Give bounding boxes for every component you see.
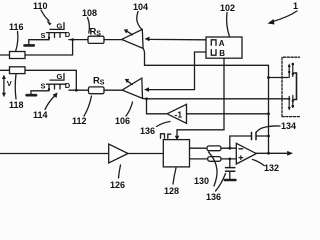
wire cap 136 to ground bbox=[229, 172, 231, 179]
arrowhead into 128 top bbox=[175, 136, 179, 140]
ground (bottom) bbox=[225, 179, 235, 182]
transistor Q110 gate bracket bbox=[50, 23, 64, 30]
leader 130 bbox=[209, 152, 218, 186]
transistor Q110 channel bbox=[47, 32, 66, 34]
label 110 bbox=[33, 1, 48, 11]
label 108 bbox=[82, 8, 97, 18]
svg-text:V: V bbox=[7, 79, 12, 88]
transistor Q114 gate label G bbox=[57, 72, 63, 81]
node plus input bbox=[228, 158, 231, 161]
svg-text:106: 106 bbox=[115, 116, 130, 126]
svg-text:102: 102 bbox=[220, 3, 235, 13]
wire U106 bottom vertex to transducer (crosses bus) bbox=[143, 97, 290, 99]
resistor block 118 bbox=[10, 67, 26, 74]
resistor 130b bbox=[208, 157, 221, 162]
transducer top element bbox=[288, 63, 294, 78]
inverter amp -1 (136) bbox=[167, 104, 187, 123]
leader 132 bbox=[253, 160, 265, 166]
wire 118 to drain node of Q114 bbox=[25, 70, 76, 90]
output arrowhead bbox=[287, 151, 293, 156]
transducer bottom element bbox=[288, 96, 294, 111]
transducer core bracket bbox=[294, 73, 297, 100]
pulse generator block 102 bbox=[206, 37, 242, 58]
svg-text:136: 136 bbox=[206, 192, 221, 200]
leader 126 bbox=[119, 165, 121, 178]
wire node to inverter 136 bbox=[147, 99, 168, 114]
svg-text:132: 132 bbox=[264, 163, 279, 173]
label 132 bbox=[264, 163, 279, 173]
label 126 bbox=[110, 180, 125, 190]
label 130 bbox=[194, 176, 209, 186]
svg-text:116: 116 bbox=[9, 22, 24, 32]
resistor block 116 bbox=[10, 52, 26, 59]
leader arrow 110 bbox=[41, 10, 52, 26]
buffer amp 126 (right pointing) bbox=[109, 144, 128, 163]
svg-text:S: S bbox=[100, 80, 105, 87]
resistor 130a bbox=[207, 146, 221, 151]
svg-text:130: 130 bbox=[194, 176, 209, 186]
label 100 (cut off at edge) bbox=[293, 1, 298, 11]
transistor Q114 source tick node bbox=[48, 88, 50, 90]
svg-text:108: 108 bbox=[82, 8, 97, 18]
-1 text bbox=[175, 110, 183, 120]
label 118 bbox=[9, 100, 24, 110]
wire op-amp output bbox=[256, 152, 288, 154]
resistor Rs 108 bbox=[88, 36, 104, 43]
demodulator block 128 bbox=[163, 140, 189, 167]
wire B output of 102 to amp 106 bbox=[149, 52, 206, 90]
transistor Q110 D label bbox=[65, 30, 71, 39]
leader 134 bbox=[257, 126, 281, 132]
leader 112 bbox=[84, 96, 92, 116]
transistor Q110 source tick node bbox=[48, 37, 50, 39]
leader 108 bbox=[88, 18, 90, 34]
wire 126 to 128 bbox=[128, 153, 163, 155]
pulse symbol B bbox=[211, 50, 216, 56]
wire long input to buffer 126 bbox=[0, 153, 109, 155]
transistor Q110 gate label G bbox=[57, 21, 63, 30]
wire source Q114 to ground bbox=[31, 89, 49, 94]
svg-text:S: S bbox=[41, 31, 46, 40]
svg-text:118: 118 bbox=[9, 100, 24, 110]
wire Rs108 to amp 104 bbox=[104, 39, 122, 41]
gain arrow of U106 bbox=[125, 79, 132, 85]
label 116 bbox=[9, 22, 24, 32]
wire 116 to drain node of Q110 bbox=[25, 40, 73, 55]
leader 106 bbox=[126, 102, 133, 116]
wire Rs112 to amp 106 bbox=[104, 89, 122, 91]
input arrowhead into U106 bbox=[144, 87, 149, 92]
leader 118 bbox=[14, 74, 17, 99]
label 136 (cap) bbox=[206, 192, 221, 202]
svg-text:B: B bbox=[219, 49, 225, 58]
node feed inverter bbox=[145, 97, 148, 100]
capacitor 136 bbox=[226, 168, 235, 172]
wire 130b to op-amp bbox=[221, 158, 236, 160]
ground (middle) bbox=[27, 94, 36, 97]
label V bbox=[7, 79, 12, 88]
pulse symbol A bbox=[211, 40, 216, 46]
svg-text:1: 1 bbox=[293, 1, 298, 11]
node bus inverter bbox=[267, 112, 270, 115]
wire bus to transducer top element bbox=[269, 77, 289, 79]
pulse glyphs above 128 bbox=[161, 134, 171, 139]
wire left stub of 118 bbox=[0, 69, 10, 71]
wire cap 134 to bus bbox=[257, 135, 269, 137]
leader 136 inverter bbox=[157, 122, 171, 127]
node drain Q110 bbox=[71, 38, 74, 41]
label 114 bbox=[33, 110, 48, 120]
svg-text:A: A bbox=[219, 39, 225, 48]
transistor Q114 D label bbox=[65, 81, 71, 90]
op-amp 132 bbox=[236, 143, 256, 164]
node minus input bbox=[228, 147, 231, 150]
wire bottom vertex U104 to right bus bbox=[143, 48, 268, 153]
svg-text:S: S bbox=[41, 82, 46, 91]
label 104 bbox=[133, 2, 148, 12]
svg-text:D: D bbox=[65, 81, 71, 90]
wire minus input to feedback cap 134 bbox=[230, 136, 251, 148]
transistor Q114 gate bracket bbox=[50, 74, 64, 81]
transistor Q114 channel bbox=[47, 83, 66, 85]
wire 128 to resistor 130b bbox=[190, 158, 208, 160]
voltage arrow V bbox=[2, 75, 6, 98]
leader arrow 100 bbox=[268, 11, 298, 25]
leader 104 bbox=[137, 12, 142, 29]
leader arrow 114 bbox=[45, 93, 58, 110]
wire drain Q114 to Rs112 bbox=[69, 89, 89, 91]
plus sign bbox=[239, 156, 243, 160]
wire 130a to op-amp bbox=[221, 147, 236, 149]
node output bus bbox=[267, 152, 270, 155]
wire left stub of 116 bbox=[0, 54, 10, 56]
svg-text:112: 112 bbox=[72, 116, 87, 126]
op-amp U104 (left pointing) bbox=[122, 29, 144, 48]
transducer dashed box bbox=[282, 57, 300, 116]
wire source Q110 to ground bbox=[29, 38, 49, 45]
resistor Rs 112 bbox=[89, 87, 105, 94]
svg-text:134: 134 bbox=[281, 121, 296, 131]
node bus to transducer top bbox=[267, 76, 270, 79]
wire drain Q110 to Rs108 bbox=[69, 39, 88, 41]
svg-text:114: 114 bbox=[33, 110, 48, 120]
svg-text:128: 128 bbox=[164, 186, 179, 196]
label 102 bbox=[220, 3, 235, 13]
leader 136 cap bbox=[216, 174, 226, 192]
node drain Q114 bbox=[75, 89, 78, 92]
label 136 (inverter) bbox=[140, 126, 155, 136]
ground (top) bbox=[25, 44, 34, 47]
svg-text:126: 126 bbox=[110, 180, 125, 190]
leader 102 bbox=[227, 13, 230, 37]
wire plus input to cap 136 bbox=[229, 159, 231, 167]
leader 116 bbox=[16, 32, 18, 52]
wire inverter input from right bus bbox=[187, 113, 269, 115]
resistor Rs 112 label bbox=[93, 75, 105, 86]
resistor Rs 108 label bbox=[90, 26, 102, 37]
label 134 bbox=[281, 121, 296, 131]
svg-text:-1: -1 bbox=[175, 110, 183, 120]
label 128 bbox=[164, 186, 179, 196]
svg-text:110: 110 bbox=[33, 1, 48, 11]
minus sign bbox=[239, 148, 243, 150]
node bus cap bbox=[267, 135, 270, 138]
wire 128 to resistor 130a bbox=[190, 147, 208, 149]
transistor Q114 ticks bbox=[49, 84, 60, 89]
capacitor 134 bbox=[252, 132, 257, 139]
label 106 bbox=[115, 116, 130, 126]
svg-text:D: D bbox=[65, 30, 71, 39]
op-amp U106 (left pointing) bbox=[122, 78, 142, 98]
wire 102 bottom to demodulator 128 bbox=[177, 58, 224, 137]
transistor Q110 S label bbox=[41, 31, 46, 40]
transistor Q110 ticks bbox=[49, 33, 60, 38]
label 112 bbox=[72, 116, 87, 126]
svg-text:136: 136 bbox=[140, 126, 155, 136]
wire pulse A to U104 bbox=[149, 38, 206, 40]
leader 128 bbox=[173, 168, 176, 184]
gain arrow of U104 bbox=[124, 29, 133, 35]
transistor Q114 S label bbox=[41, 82, 46, 91]
svg-text:104: 104 bbox=[133, 2, 148, 12]
input arrowhead into U104 bbox=[145, 37, 150, 42]
